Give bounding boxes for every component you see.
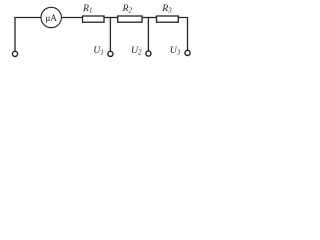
resistor R2 <box>118 16 142 22</box>
wire: ammeter to R1 <box>62 17 83 19</box>
microammeter µA <box>41 7 61 27</box>
svg-text:U3: U3 <box>170 45 181 57</box>
wire: R3 right then down to terminal U3 <box>178 18 187 51</box>
terminal U3 <box>185 50 190 55</box>
svg-text:R2: R2 <box>122 3 133 15</box>
wire: tap down to terminal U1 <box>109 18 111 52</box>
wire: R2 to R3 with tap node 2 <box>142 17 157 19</box>
wire: tap down to terminal U2 <box>147 18 149 51</box>
label U3 <box>170 45 181 57</box>
label R1 <box>82 3 92 15</box>
terminal U1 <box>108 51 113 56</box>
svg-text:R1: R1 <box>82 3 92 15</box>
label U2 <box>131 45 142 57</box>
wire: R1 to R2 with tap node 1 <box>104 17 118 19</box>
svg-text:μA: μA <box>46 13 58 23</box>
svg-text:U1: U1 <box>93 45 103 57</box>
terminal U2 <box>146 51 151 56</box>
label R2 <box>122 3 133 15</box>
resistor R3 <box>157 16 179 22</box>
resistor R1 <box>83 16 105 22</box>
terminal (left input) <box>12 51 17 56</box>
svg-text:U2: U2 <box>131 45 142 57</box>
wire: left terminal up and right to ammeter <box>15 18 41 52</box>
label U1 <box>93 45 103 57</box>
label R3 <box>161 3 172 15</box>
svg-text:R3: R3 <box>161 3 172 15</box>
